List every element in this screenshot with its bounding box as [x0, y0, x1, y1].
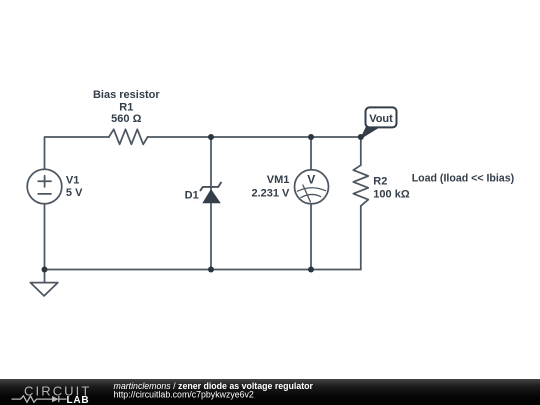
- svg-text:100 kΩ: 100 kΩ: [373, 189, 410, 201]
- svg-text:http://circuitlab.com/c7pbykwz: http://circuitlab.com/c7pbykwzye6v2: [114, 390, 254, 400]
- svg-text:Vout: Vout: [369, 113, 393, 125]
- voltage source V1: [27, 169, 62, 204]
- wire bottom rail: [45, 269, 361, 271]
- wire R2 top: [360, 137, 362, 165]
- node junction bottom VM1: [308, 267, 314, 273]
- node junction bottom D1: [208, 267, 214, 273]
- svg-text:R1: R1: [119, 102, 133, 114]
- svg-text:R2: R2: [373, 176, 387, 188]
- voltmeter VM1: [295, 170, 329, 204]
- resistor R1 zigzag: [109, 129, 148, 144]
- net label Vout callout box: [361, 107, 397, 138]
- node junction top D1: [208, 134, 214, 140]
- wire R1 right to Vout node (top rail right): [148, 136, 361, 138]
- svg-text:V1: V1: [66, 175, 79, 187]
- wire V1 bottom: [44, 204, 46, 270]
- wire VM1 bottom: [310, 204, 312, 270]
- svg-text:5 V: 5 V: [66, 187, 83, 199]
- ground: [30, 283, 57, 296]
- wire D1 branch vertical: [210, 137, 212, 270]
- svg-text:VM1: VM1: [267, 174, 290, 186]
- svg-text:V: V: [307, 172, 315, 186]
- resistor R2 zigzag: [353, 165, 368, 206]
- svg-text:D1: D1: [185, 189, 199, 201]
- wire VM1 top: [310, 137, 312, 170]
- svg-text:2.231 V: 2.231 V: [251, 187, 290, 199]
- node Vout junction: [358, 134, 364, 140]
- svg-text:LAB: LAB: [67, 395, 90, 405]
- zener diode D1: [201, 183, 222, 204]
- wire ground stub: [44, 270, 46, 283]
- node junction top VM1: [308, 134, 314, 140]
- wire R2 bottom: [360, 206, 362, 270]
- svg-text:560 Ω: 560 Ω: [111, 113, 141, 125]
- logo resistor-diode squiggle: [12, 396, 67, 402]
- wire V1 top to R1 left (top rail left): [45, 137, 109, 169]
- svg-text:Load (Iload << Ibias): Load (Iload << Ibias): [412, 173, 514, 185]
- svg-text:Bias resistor: Bias resistor: [93, 89, 160, 101]
- node junction ground: [42, 267, 48, 273]
